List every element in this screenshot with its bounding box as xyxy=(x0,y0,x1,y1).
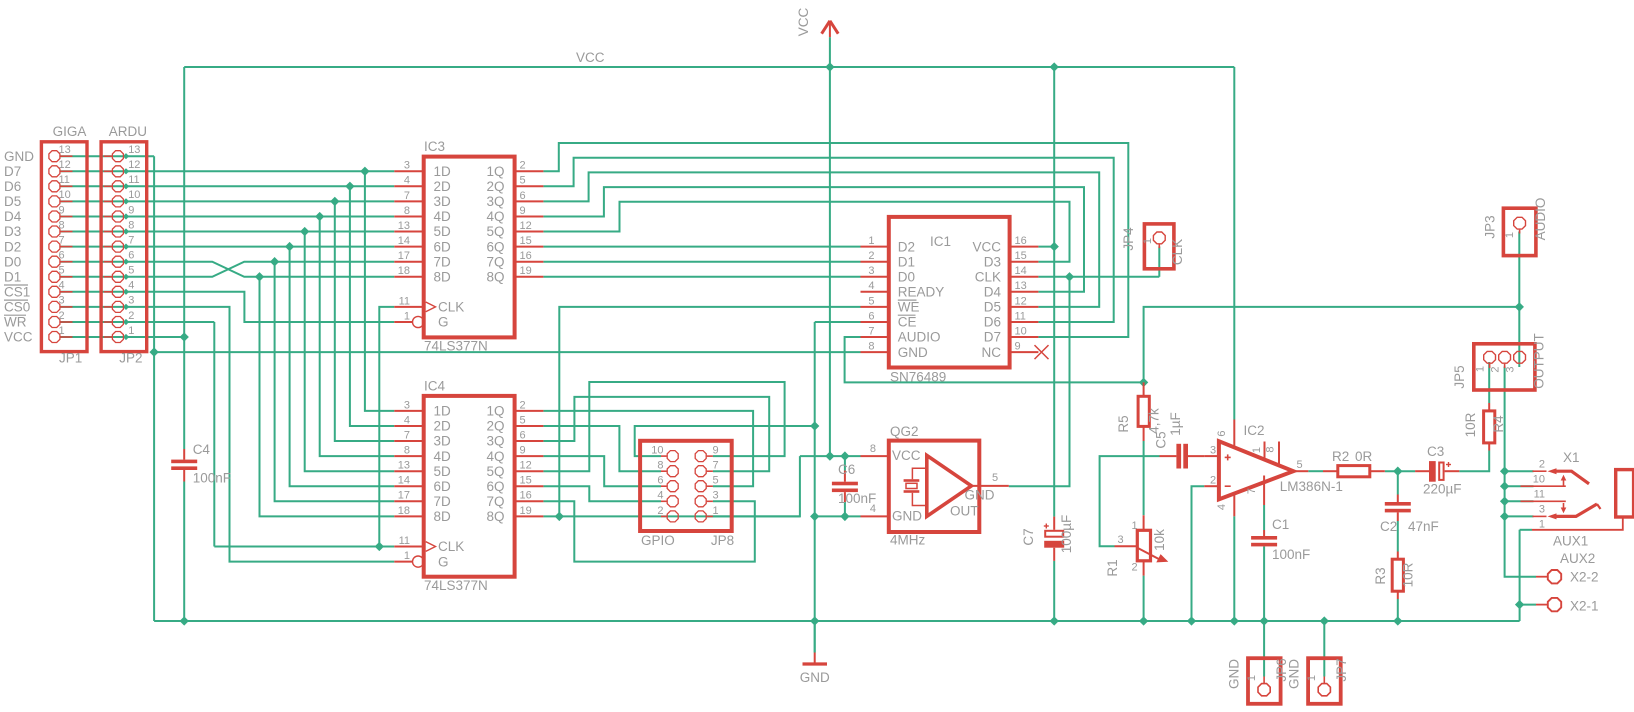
jack X1 xyxy=(1521,468,1634,530)
svg-text:15: 15 xyxy=(520,235,532,247)
labels JP5 xyxy=(1452,333,1547,389)
connector JP5 (OUTPUT) xyxy=(1474,344,1535,390)
svg-text:JP5: JP5 xyxy=(1452,365,1467,388)
svg-text:9: 9 xyxy=(713,445,719,457)
svg-text:C3: C3 xyxy=(1427,444,1444,459)
wire D4 row xyxy=(61,216,395,218)
svg-text:8: 8 xyxy=(870,443,876,455)
wire IC3 6Q to IC1 D2 xyxy=(543,246,860,248)
wire wiper to C5 xyxy=(1100,456,1160,546)
svg-text:D0: D0 xyxy=(898,270,915,285)
wire C2 hang xyxy=(1397,471,1399,494)
svg-text:JP1: JP1 xyxy=(59,351,82,366)
svg-text:4: 4 xyxy=(404,414,410,426)
svg-text:3: 3 xyxy=(868,265,874,277)
svg-text:3: 3 xyxy=(713,490,719,502)
wire GND long row to IC1 pin8 xyxy=(154,351,860,353)
svg-text:VCC: VCC xyxy=(972,239,1001,254)
svg-text:11: 11 xyxy=(59,174,70,186)
svg-text:10R: 10R xyxy=(1463,412,1478,437)
wire JP8 pin1 VCC riser xyxy=(707,456,800,516)
svg-text:10: 10 xyxy=(1015,325,1027,337)
connector JP6 (GND) xyxy=(1248,658,1281,704)
wire VCC arrow riser and drop to QG2 xyxy=(829,37,831,456)
svg-text:D4: D4 xyxy=(4,209,22,224)
svg-text:2D: 2D xyxy=(434,179,452,194)
svg-text:3: 3 xyxy=(59,295,65,307)
svg-text:2Q: 2Q xyxy=(486,419,504,434)
svg-text:5: 5 xyxy=(520,414,526,426)
svg-text:12: 12 xyxy=(59,159,71,171)
wire X1 pin row 2 xyxy=(1505,500,1534,502)
svg-text:7Q: 7Q xyxy=(486,494,504,509)
svg-text:D5: D5 xyxy=(4,194,21,209)
svg-text:8Q: 8Q xyxy=(486,509,504,524)
wire GND row JP pin 13 xyxy=(61,155,155,157)
svg-text:5Q: 5Q xyxy=(486,464,504,479)
svg-text:AUDIO: AUDIO xyxy=(898,330,941,345)
svg-text:5: 5 xyxy=(520,175,526,187)
wire D2 drop to IC4 xyxy=(290,247,395,487)
resistor R3 10R xyxy=(1392,552,1403,600)
wire GND bottom rail xyxy=(154,620,1520,622)
wire GND left riser xyxy=(153,156,155,621)
svg-text:LM386N-1: LM386N-1 xyxy=(1280,479,1343,494)
svg-text:10: 10 xyxy=(651,445,663,457)
svg-text:7: 7 xyxy=(1246,488,1258,494)
svg-text:C6: C6 xyxy=(838,462,855,477)
svg-text:5: 5 xyxy=(713,475,719,487)
svg-text:5: 5 xyxy=(1297,459,1303,471)
wire IC4 7Q under-route to JP8 pin 3 xyxy=(543,501,754,561)
wire VCC row JP1-JP2 pin 1 xyxy=(61,336,185,338)
svg-text:18: 18 xyxy=(398,505,410,517)
wire IC4 8Q row to JP8 xyxy=(543,515,800,517)
wire C3 to R4 xyxy=(1459,451,1489,472)
IC U-IC1 SN76489 sound chip xyxy=(861,217,1049,368)
labels JP6 xyxy=(1227,658,1290,689)
svg-text:D6: D6 xyxy=(4,179,21,194)
labels C1 xyxy=(1272,517,1310,562)
svg-text:9: 9 xyxy=(59,204,65,216)
svg-text:SN76489: SN76489 xyxy=(890,370,946,385)
svg-text:7: 7 xyxy=(404,429,410,441)
capacitor C4 100nF xyxy=(171,449,197,482)
svg-text:6D: 6D xyxy=(434,239,452,254)
svg-text:8: 8 xyxy=(657,460,663,472)
svg-text:6: 6 xyxy=(520,190,526,202)
svg-text:R5: R5 xyxy=(1116,415,1131,432)
svg-text:IC1: IC1 xyxy=(930,234,951,249)
svg-text:READY: READY xyxy=(898,285,945,300)
svg-text:2: 2 xyxy=(1210,475,1216,487)
wire C7 bottom lead xyxy=(1053,561,1055,621)
IC U-IC3 74LS377N latch xyxy=(394,157,543,338)
svg-text:10R: 10R xyxy=(1401,562,1416,587)
svg-text:6D: 6D xyxy=(434,479,452,494)
wire IC1 CLK row to JP4 xyxy=(1038,276,1159,278)
junction WE tap xyxy=(556,513,563,520)
svg-text:74LS377N: 74LS377N xyxy=(424,339,488,354)
labels JP4 xyxy=(1121,227,1185,265)
svg-text:VCC: VCC xyxy=(4,330,33,345)
svg-text:CLK: CLK xyxy=(438,300,464,315)
connector JP1 (GIGA) xyxy=(41,142,87,352)
labels X1 xyxy=(1533,450,1589,549)
IC U-IC4 74LS377N latch xyxy=(394,396,543,577)
potentiometer R1 10k xyxy=(1115,515,1169,575)
svg-text:CLK: CLK xyxy=(438,539,464,554)
svg-text:2: 2 xyxy=(520,399,526,411)
wire C6 top lead xyxy=(844,456,846,470)
wire VCC drop to IC1 pin16 and C7 xyxy=(1053,67,1055,517)
svg-text:WE: WE xyxy=(898,300,920,315)
svg-text:4,7k: 4,7k xyxy=(1147,408,1162,434)
labels JP8 xyxy=(641,445,734,549)
svg-text:1: 1 xyxy=(713,505,719,517)
svg-text:1D: 1D xyxy=(434,404,452,419)
svg-text:VCC: VCC xyxy=(576,50,605,65)
svg-text:QG2: QG2 xyxy=(890,424,919,439)
svg-text:74LS377N: 74LS377N xyxy=(424,578,488,593)
svg-text:8Q: 8Q xyxy=(486,270,504,285)
svg-text:11: 11 xyxy=(1534,489,1545,501)
svg-text:VCC: VCC xyxy=(892,448,921,463)
wire X2-1 stub xyxy=(1520,604,1536,606)
wire JP5 pin3 drop xyxy=(1518,307,1520,367)
svg-text:13: 13 xyxy=(1015,280,1027,292)
svg-text:4: 4 xyxy=(404,175,410,187)
svg-text:9: 9 xyxy=(520,205,526,217)
svg-text:D1: D1 xyxy=(4,270,21,285)
wire X1 pin1 row xyxy=(1520,529,1532,531)
svg-text:D4: D4 xyxy=(984,285,1002,300)
svg-text:9: 9 xyxy=(520,445,526,457)
connector JP4 (CLK) xyxy=(1144,224,1174,269)
svg-text:GND: GND xyxy=(800,670,830,685)
wire IC3 2Q to D6 xyxy=(543,158,1113,322)
wire R5 to R1 xyxy=(1143,441,1145,515)
svg-text:CS0: CS0 xyxy=(4,300,30,315)
svg-text:7: 7 xyxy=(868,325,874,337)
junction D6 bus xyxy=(346,183,353,190)
svg-text:8D: 8D xyxy=(434,270,452,285)
svg-text:10: 10 xyxy=(128,189,140,201)
wire R3 bottom lead xyxy=(1397,599,1399,621)
svg-text:3Q: 3Q xyxy=(486,434,504,449)
oscillator QG2 4MHz xyxy=(861,441,1009,532)
svg-text:R3: R3 xyxy=(1373,567,1388,584)
svg-text:OUT: OUT xyxy=(950,503,979,518)
svg-text:1D: 1D xyxy=(434,164,452,179)
svg-text:6: 6 xyxy=(868,310,874,322)
svg-text:WR: WR xyxy=(4,315,27,330)
wire QG2 OUT riser xyxy=(1009,277,1070,486)
wire WR row xyxy=(61,321,215,323)
svg-text:C7: C7 xyxy=(1021,528,1036,545)
svg-text:16: 16 xyxy=(1015,235,1027,247)
labels C4 xyxy=(193,442,231,486)
wire JP7 stub xyxy=(1323,676,1325,678)
svg-text:100nF: 100nF xyxy=(1272,547,1310,562)
svg-text:3: 3 xyxy=(1505,366,1517,372)
wire JP6 riser xyxy=(1263,621,1265,677)
pin numbers JP1 JP2 xyxy=(59,144,141,337)
svg-text:4D: 4D xyxy=(434,209,452,224)
svg-text:D1: D1 xyxy=(898,254,915,269)
connector JP7 (GND) xyxy=(1308,658,1341,704)
svg-text:100µF: 100µF xyxy=(1059,515,1074,554)
svg-text:1: 1 xyxy=(1251,447,1263,453)
svg-text:GND: GND xyxy=(965,487,995,502)
junction D1 bus xyxy=(271,258,278,265)
svg-text:R4: R4 xyxy=(1491,415,1506,433)
wire C1 bottom lead xyxy=(1263,547,1265,622)
svg-text:X2-2: X2-2 xyxy=(1570,570,1599,585)
svg-text:5: 5 xyxy=(59,265,65,277)
svg-text:6: 6 xyxy=(1216,430,1228,436)
wire QG2 VCC row xyxy=(800,455,861,457)
svg-text:7: 7 xyxy=(128,234,134,246)
svg-text:2Q: 2Q xyxy=(486,179,504,194)
svg-text:1: 1 xyxy=(404,310,410,322)
labels C5 xyxy=(1154,412,1184,448)
labels JP3 xyxy=(1483,198,1548,241)
wire GND symbol tail xyxy=(814,621,816,653)
labels R2 xyxy=(1332,449,1373,464)
resistor R4 10R xyxy=(1484,403,1495,451)
svg-text:9: 9 xyxy=(128,204,134,216)
wire D3 row xyxy=(61,231,395,233)
svg-text:X2-1: X2-1 xyxy=(1570,599,1599,614)
svg-text:AUX2: AUX2 xyxy=(1560,551,1595,566)
svg-text:5: 5 xyxy=(128,265,134,277)
svg-text:13: 13 xyxy=(59,144,71,156)
wire X1 pin row 3 xyxy=(1505,515,1534,517)
svg-text:10: 10 xyxy=(1533,474,1545,486)
svg-text:8: 8 xyxy=(404,445,410,457)
wire CS1 step to IC3 G xyxy=(61,292,395,322)
wire JP3 drop xyxy=(1518,232,1520,307)
junction D2 bus xyxy=(286,243,293,250)
svg-text:AUX1: AUX1 xyxy=(1553,534,1588,549)
svg-text:G: G xyxy=(438,554,449,569)
svg-text:GND: GND xyxy=(1227,659,1242,689)
svg-text:2: 2 xyxy=(520,160,526,172)
wire CE riser to GND xyxy=(814,322,816,653)
svg-text:17: 17 xyxy=(398,250,410,262)
wire D5 drop to IC4 xyxy=(335,201,395,441)
wire R1 bottom lead xyxy=(1143,576,1145,621)
wire IC4 1Q long route to JP8 pin 5 xyxy=(543,411,753,486)
wire X1 pin row 0 xyxy=(1505,470,1534,472)
svg-text:4: 4 xyxy=(128,280,134,292)
svg-text:4Q: 4Q xyxy=(486,209,504,224)
svg-text:2: 2 xyxy=(868,250,874,262)
capacitor C5 1uF xyxy=(1160,444,1205,469)
svg-text:8: 8 xyxy=(59,219,65,231)
svg-text:9: 9 xyxy=(1015,341,1021,353)
svg-text:JP7: JP7 xyxy=(1334,658,1349,681)
wire VCC left drop to JP2 pin 1 xyxy=(183,67,185,337)
svg-text:17: 17 xyxy=(398,490,410,502)
svg-text:G: G xyxy=(438,315,449,330)
svg-text:3D: 3D xyxy=(434,194,452,209)
labels C3 xyxy=(1423,444,1462,497)
svg-text:10: 10 xyxy=(59,189,71,201)
wire C6 bottom lead xyxy=(844,502,846,516)
svg-text:47nF: 47nF xyxy=(1408,519,1439,534)
svg-text:2: 2 xyxy=(128,310,134,322)
capacitor C2 47nF xyxy=(1385,495,1411,522)
wire WR drop xyxy=(213,322,215,547)
ground symbol xyxy=(803,653,828,665)
svg-text:3: 3 xyxy=(128,295,134,307)
svg-text:5: 5 xyxy=(992,472,998,484)
svg-text:10k: 10k xyxy=(1152,529,1167,551)
svg-text:IC3: IC3 xyxy=(424,139,445,154)
wire CS0 step to IC4 G xyxy=(61,307,395,562)
svg-text:D3: D3 xyxy=(4,224,21,239)
svg-text:8: 8 xyxy=(868,341,874,353)
svg-text:X1: X1 xyxy=(1563,450,1580,465)
svg-text:5D: 5D xyxy=(434,464,452,479)
wire IC3 4Q to D4 xyxy=(543,187,1084,292)
svg-text:13: 13 xyxy=(398,220,410,232)
wire D1 drop to IC4 7D xyxy=(275,262,395,502)
svg-text:JP8: JP8 xyxy=(711,533,734,548)
wire IC2 pin2 drop xyxy=(1192,486,1205,621)
labels IC2 xyxy=(1210,423,1343,510)
svg-text:15: 15 xyxy=(520,475,532,487)
svg-text:3D: 3D xyxy=(434,434,452,449)
svg-text:1µF: 1µF xyxy=(1168,412,1183,436)
svg-text:3: 3 xyxy=(1210,445,1216,457)
svg-text:D7: D7 xyxy=(4,164,21,179)
wire IC4 3Q wrap to JP8 pin 7 xyxy=(543,397,769,471)
resistor R5 4.7k xyxy=(1138,382,1149,441)
svg-text:18: 18 xyxy=(398,265,410,277)
svg-text:JP3: JP3 xyxy=(1483,215,1498,238)
svg-text:D2: D2 xyxy=(898,239,915,254)
svg-text:7D: 7D xyxy=(434,494,452,509)
svg-text:8: 8 xyxy=(128,219,134,231)
svg-text:GIGA: GIGA xyxy=(53,124,87,139)
wire IC3 5Q to D3 xyxy=(543,202,1069,262)
svg-text:2: 2 xyxy=(1132,562,1138,574)
op-amp IC2 LM386N-1 xyxy=(1204,420,1308,517)
svg-text:3: 3 xyxy=(404,160,410,172)
wire GND spur to JP8 pin 10 xyxy=(635,426,815,456)
svg-text:4MHz: 4MHz xyxy=(890,533,926,548)
svg-text:C4: C4 xyxy=(193,442,211,457)
svg-text:19: 19 xyxy=(520,265,532,277)
svg-text:D6: D6 xyxy=(984,315,1001,330)
wire riser to IC3 CLK xyxy=(379,307,394,547)
svg-text:1: 1 xyxy=(868,235,874,247)
svg-text:3Q: 3Q xyxy=(486,194,504,209)
labels R4 xyxy=(1463,412,1506,437)
labels C2 xyxy=(1380,519,1439,534)
connector JP2 (ARDU) xyxy=(101,142,147,352)
labels IC4 xyxy=(398,378,532,593)
svg-text:19: 19 xyxy=(520,505,532,517)
wire IC3 1Q to D7 xyxy=(543,143,1128,337)
svg-text:R2: R2 xyxy=(1332,449,1349,464)
svg-text:1: 1 xyxy=(1539,519,1545,531)
junction D7 bus xyxy=(361,168,368,175)
labels JP7 xyxy=(1287,658,1350,689)
wire D7 row xyxy=(61,170,395,172)
svg-text:JP2: JP2 xyxy=(119,351,142,366)
wire WR row to IC4 CLK xyxy=(214,546,394,548)
svg-text:12: 12 xyxy=(1015,295,1027,307)
svg-text:12: 12 xyxy=(128,159,140,171)
svg-text:6: 6 xyxy=(59,250,65,262)
svg-text:1: 1 xyxy=(1504,232,1516,238)
labels R1 xyxy=(1105,520,1167,577)
wire JP7 riser xyxy=(1323,621,1325,677)
labels C6 xyxy=(838,462,876,506)
svg-text:2: 2 xyxy=(1490,366,1502,372)
svg-text:2: 2 xyxy=(1539,459,1545,471)
svg-text:7: 7 xyxy=(713,460,719,472)
wire AUDIO from IC1 pin7 xyxy=(845,337,1144,382)
svg-text:1: 1 xyxy=(1132,520,1138,532)
svg-text:16: 16 xyxy=(520,490,532,502)
wire VCC riser IC2 pin 6 xyxy=(1233,67,1235,420)
wire WE riser xyxy=(559,307,860,517)
svg-text:7D: 7D xyxy=(434,254,452,269)
svg-text:CLK: CLK xyxy=(975,270,1001,285)
net labels JP1 left xyxy=(4,149,34,345)
svg-text:C1: C1 xyxy=(1272,517,1289,532)
wire JP4 drop xyxy=(1158,247,1160,277)
svg-text:GND: GND xyxy=(4,149,34,164)
svg-text:14: 14 xyxy=(398,475,410,487)
svg-text:OUTPUT: OUTPUT xyxy=(1532,333,1547,389)
svg-text:8: 8 xyxy=(404,205,410,217)
svg-text:15: 15 xyxy=(1015,250,1027,262)
svg-text:1: 1 xyxy=(1246,675,1258,681)
wire IC1 VCC pin16 row xyxy=(1038,246,1054,248)
wire D1 row with crossover xyxy=(61,262,395,277)
svg-text:D7: D7 xyxy=(984,330,1001,345)
svg-text:7: 7 xyxy=(404,190,410,202)
wire IC3 3Q to D5 xyxy=(543,172,1099,307)
wire IC3 8Q to IC1 D0 xyxy=(543,276,860,278)
svg-text:220µF: 220µF xyxy=(1423,482,1462,497)
labels IC3 xyxy=(398,139,532,354)
wire IC2 out to R2 xyxy=(1308,470,1323,472)
junction JP1-JP2 pin ties xyxy=(123,153,129,340)
junction D5 bus xyxy=(331,198,338,205)
svg-text:C5: C5 xyxy=(1154,431,1169,448)
svg-text:5D: 5D xyxy=(434,224,452,239)
svg-text:3: 3 xyxy=(1118,534,1124,546)
svg-text:1: 1 xyxy=(1306,675,1318,681)
svg-text:4Q: 4Q xyxy=(486,449,504,464)
wire IC4 5Q wrap to JP8 pin 9 xyxy=(543,382,784,471)
svg-text:D2: D2 xyxy=(4,239,21,254)
svg-text:1: 1 xyxy=(59,325,65,337)
svg-text:6Q: 6Q xyxy=(486,479,504,494)
svg-text:CS1: CS1 xyxy=(4,285,30,300)
svg-text:JP4: JP4 xyxy=(1121,227,1136,251)
svg-text:4: 4 xyxy=(868,280,874,292)
svg-text:4D: 4D xyxy=(434,449,452,464)
pad X2-1 xyxy=(1536,598,1561,611)
